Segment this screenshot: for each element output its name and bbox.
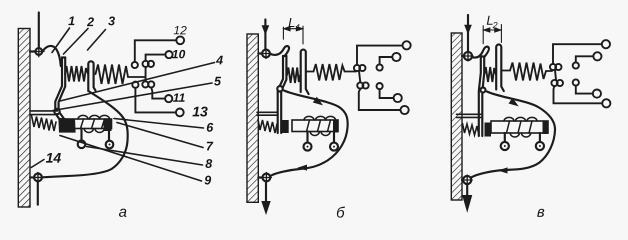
svg-text:1: 1 [296,22,301,32]
side contact D (panel v) [573,79,579,85]
svg-text:4: 4 [215,53,223,67]
terminal top (panel b) [258,49,271,59]
wire bottom lead (panel a) [37,181,39,204]
wall (panel b) [247,34,258,202]
wire G to terminal 12 (panel a) [135,40,177,62]
armature joint (panel v) [481,88,486,93]
contact stack (panel b) [354,41,411,114]
terminal top (panel v) [462,51,473,61]
wire top lead (panel a) [38,13,40,49]
wire stack to terminal 1 (panel b) [357,46,403,65]
contact pair H I (panel a) [143,61,149,67]
terminal bottom (panel v) [462,175,472,185]
hairpin driver (panel a) [88,61,95,91]
contact stud left (panel v) [501,133,509,150]
contact stud right (panel v) [536,133,544,150]
contact pair A (panel v) [550,64,556,70]
winding turns (panel v) [504,117,537,137]
leader line 1 (panel a) [52,28,70,53]
wire stack to terminal 4 (panel b) [359,89,401,110]
terminal 11 circle (panel a) [165,95,172,102]
armature contact pusher blob (panel v) [485,123,492,137]
current loop wire (panel b) [270,91,347,177]
svg-text:9: 9 [204,173,211,187]
wire hook terminal to armature (panel v) [473,47,489,58]
coarse contact spring (panel b) [306,64,356,81]
wire D to terminal 3 (panel b) [380,89,394,98]
contact stud right (panel b) [330,132,338,151]
armature joint (panel b) [277,86,282,91]
wall (panel a) [18,29,30,208]
fine spring (panel a) [65,66,88,82]
leader line 5 (panel a) [53,83,212,111]
svg-text:в: в [537,204,545,221]
coil bar (panel b) [292,120,338,133]
wire C to terminal 2 (panel b) [380,57,393,64]
terminal 1 circle (panel b) [403,41,411,49]
contact stack wires and studs (panel a) [132,36,184,116]
restoring spring (panel b) [258,120,277,134]
svg-text:3: 3 [108,14,115,28]
leader line 8 (panel a) [87,147,203,166]
wire K to terminal 11 (panel a) [151,88,165,99]
terminal 3 circle (panel v) [593,90,601,98]
terminal 4 circle (panel b) [401,106,409,114]
flux loop wire (panel a) [43,91,128,177]
current arrow on loop top (panel v) [509,99,517,106]
pivot joint (panel a) [54,109,59,114]
L2 dimension (panel v) [483,25,501,44]
stack contact L (panel a) [132,82,138,88]
fine spring (panel v) [485,67,496,82]
leader line 7 (panel a) [117,123,203,148]
bracket (panel a) [30,111,58,115]
terminal 3 circle (panel b) [394,94,402,102]
side contact D (panel b) [377,83,383,89]
current arrow on loop bottom (panel v) [500,168,508,173]
winding turns (panel a) [78,115,110,132]
wire hook terminal to armature (panel b) [271,46,289,56]
svg-text:14: 14 [46,150,62,166]
svg-text:а: а [119,204,127,221]
svg-text:8: 8 [205,157,212,171]
terminal 4 circle (panel v) [602,99,610,107]
armature contact pusher blob (panel b) [282,120,289,133]
svg-text:12: 12 [173,23,187,37]
winding turns (panel b) [304,116,336,135]
stack contact G (panel a) [132,62,138,68]
bracket (panel v) [457,114,482,117]
terminal bottom (panel b) [258,173,271,183]
link between pairs (panel b) [359,71,360,82]
L1 dimension (panel b) [283,26,303,44]
armature lever (panel v) [479,57,484,137]
contact pair J K (panel a) [142,81,148,87]
svg-text:5: 5 [214,74,222,88]
coarse contact spring (panel v) [503,63,553,81]
contact pair A (panel b) [354,65,360,71]
restoring spring (panel v) [463,124,480,136]
contact pair B (panel v) [551,80,557,86]
contact pair B (panel b) [357,82,363,88]
hairpin driver (panel v) [496,45,504,91]
side contact C (panel b) [377,64,383,70]
wire C to terminal 2 (panel v) [576,56,594,62]
wire top lead with current arrow (panel v) [465,15,471,52]
terminal 12 circle (panel a) [176,36,184,44]
wire stack to terminal 1 (panel v) [553,44,602,64]
svg-text:L: L [288,15,295,30]
contact stud right (panel a) [106,131,114,148]
terminal 2 circle (panel v) [593,52,601,60]
link between pairs (panel v) [555,70,556,80]
wire D to terminal 3 (panel v) [576,86,593,94]
coarse contact spring (panel a) [96,65,146,85]
terminal top (panel a) [30,46,44,56]
hairpin driver (panel b) [301,50,309,94]
coil bar (panel v) [491,121,548,134]
svg-text:1: 1 [68,14,75,28]
svg-text:7: 7 [206,139,214,153]
wall (panel v) [451,33,462,200]
svg-text:6: 6 [206,121,214,135]
contact stack (panel v) [550,40,611,107]
leader line 9 (panel a) [60,136,202,182]
terminal 1 circle (panel v) [602,40,610,48]
wire L to terminal 13 (panel a) [135,88,176,113]
armature lever (panel b) [278,56,287,133]
current arrow on loop top (panel b) [314,98,322,105]
svg-text:10: 10 [172,47,186,61]
restoring spring (panel a) [32,116,57,132]
contact stud left (panel b) [304,132,312,151]
armature lever (panel a) [55,58,66,124]
svg-text:13: 13 [192,103,208,119]
leader line 4 (panel a) [60,63,215,102]
bracket (panel b) [257,112,278,115]
svg-text:б: б [336,205,345,222]
svg-text:2: 2 [86,15,94,29]
fine spring (panel b) [287,68,300,84]
leader line 6 (panel a) [114,119,204,129]
wire stack to terminal 4 (panel v) [554,86,603,103]
wire top lead with current arrow (panel b) [262,20,268,50]
leader line 2 (panel a) [64,29,89,55]
wire bottom lead with current arrow (panel b) [262,181,270,213]
leader line 3 (panel a) [88,30,106,51]
terminal 10 circle (panel a) [165,51,172,58]
svg-text:11: 11 [173,91,186,105]
terminal bottom (panel a) [30,172,43,182]
terminal 13 circle (panel a) [176,109,184,117]
link between pairs (panel a) [145,67,147,81]
svg-text:2: 2 [492,20,498,30]
contact stud left (panel a) [78,129,86,149]
current loop wire (panel v) [471,92,555,178]
wire hook from top terminal to armature (panel a) [44,46,61,66]
terminal 2 circle (panel b) [392,53,400,61]
leader line 14 (panel a) [31,160,44,168]
coil bar (panel a) [66,119,112,131]
wire bottom lead with current arrow (panel v) [463,184,472,211]
current arrow on loop bottom (panel b) [299,165,307,170]
wire H to terminal 10 (panel a) [146,55,166,61]
armature contact pusher blob (panel a) [60,119,75,132]
side contact C (panel v) [573,62,579,68]
